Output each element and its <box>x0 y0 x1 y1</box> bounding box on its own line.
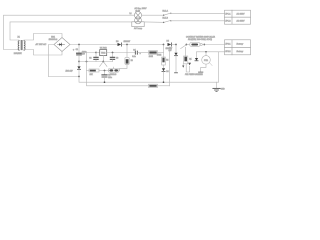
wire U1 gnd <box>102 56 104 62</box>
wire Q1 emitter loop <box>186 64 189 72</box>
LED1 <box>125 57 129 64</box>
wire buzzer rail <box>197 51 225 53</box>
svg-text:C2: C2 <box>89 58 91 60</box>
wire mains outer loop L <box>4 15 135 49</box>
wire C1 tap bus <box>79 61 113 63</box>
connector JP1-1 <box>225 10 251 17</box>
lamp AC fan circle <box>134 12 141 19</box>
svg-text:L1: L1 <box>130 13 132 15</box>
svg-text:RL1-A: RL1-A <box>163 10 169 13</box>
node D5 out <box>175 44 177 46</box>
diodes D8 D9 row <box>108 67 119 72</box>
wire to U1 <box>96 52 100 54</box>
connector JP2-1 <box>225 40 251 48</box>
diode D5 <box>168 43 177 46</box>
svg-text:C4: C4 <box>133 49 135 51</box>
zener D4 branch <box>174 45 177 73</box>
wire Q1 <box>185 47 187 56</box>
resistor R6 <box>149 51 164 55</box>
node Q1 collector <box>186 44 188 46</box>
wire bridge plus output <box>70 44 118 46</box>
resistor R4 vertical <box>162 57 166 65</box>
svg-text:1N4007x4: 1N4007x4 <box>49 39 58 41</box>
svg-text:R4: R4 <box>166 59 168 61</box>
transistor Q1 <box>184 56 188 64</box>
svg-text:AC 230V: AC 230V <box>237 20 246 23</box>
svg-text:AC lamp: AC lamp <box>134 27 143 30</box>
wire contact B to connector <box>170 20 171 21</box>
buzzer PZ1 <box>202 52 211 64</box>
diode D3 <box>118 43 164 46</box>
svg-text:40 W: 40 W <box>135 10 140 12</box>
ground U1 <box>100 61 107 67</box>
svg-text:Battery: Battery <box>237 43 245 46</box>
regulator U1 7812 <box>100 50 107 56</box>
svg-text:10K: 10K <box>90 74 94 76</box>
wire tap down to rail2 <box>87 62 149 86</box>
svg-text:25V: 25V <box>82 54 86 56</box>
node relay out <box>203 44 205 46</box>
transformer core <box>21 40 22 49</box>
capacitor C1 <box>77 45 82 62</box>
wire link down to rail2 <box>169 50 171 86</box>
node C5 bottom <box>104 81 106 83</box>
wire relay to JP2-1 <box>202 44 224 46</box>
svg-text:470E: 470E <box>157 54 162 56</box>
svg-text:Q1: Q1 <box>189 58 191 60</box>
bridge rectifier BR1 <box>54 38 70 52</box>
wire secondary top to bridge <box>24 34 62 41</box>
relay coil RL1 <box>186 43 200 47</box>
svg-text:R3: R3 <box>131 60 133 62</box>
svg-text:ZD1 12V: ZD1 12V <box>65 70 74 72</box>
svg-text:JP1-1: JP1-1 <box>225 14 231 16</box>
relay contact RL1-B <box>163 20 171 23</box>
buzzer bottom lead <box>201 64 206 72</box>
transistor Q1 collector diagonal <box>181 45 187 49</box>
wire down x163 <box>163 45 165 58</box>
wire bridge minus to ground rail <box>49 45 55 77</box>
wire secondary bottom to bridge <box>24 50 62 56</box>
capacitor C4 <box>135 51 148 54</box>
Q1 emitter arrow <box>182 64 184 68</box>
relay terminal circle <box>200 43 202 45</box>
svg-text:C1: C1 <box>76 49 78 51</box>
node row <box>104 70 106 72</box>
capacitor C5 <box>102 71 107 83</box>
svg-text:100E: 100E <box>149 56 154 58</box>
svg-text:X1: X1 <box>18 37 20 39</box>
wire ground rail lower left <box>49 76 80 78</box>
node D3 out <box>126 44 128 46</box>
svg-text:PZ1: PZ1 <box>204 60 209 62</box>
capacitor C2 <box>94 53 98 62</box>
ground buzzer <box>199 71 203 73</box>
svg-text:JP2-1: JP2-1 <box>225 44 231 46</box>
wire fan to contact <box>142 14 164 16</box>
resistor R7 rail2 <box>149 84 158 87</box>
wire LED branch <box>126 45 128 58</box>
node U1 out <box>112 52 114 54</box>
node junction D5 <box>163 44 165 46</box>
wire tap up to U1 rail <box>87 53 97 62</box>
svg-text:D5: D5 <box>167 40 169 42</box>
svg-text:RL1-B: RL1-B <box>163 18 169 20</box>
wire contact A to connector <box>170 13 171 14</box>
svg-text:1N4007: 1N4007 <box>124 41 131 43</box>
svg-text:230V/15V: 230V/15V <box>14 53 23 55</box>
svg-text:100u: 100u <box>108 77 112 79</box>
svg-text:0.1u: 0.1u <box>132 56 136 58</box>
node bridge plus <box>78 44 80 46</box>
wire tap to lower row <box>87 70 90 72</box>
diode D6 <box>162 65 165 82</box>
svg-text:+: + <box>140 53 142 55</box>
node C1 bottom <box>78 61 80 63</box>
svg-text:JP2-2: JP2-2 <box>225 51 231 53</box>
wire right drop <box>218 52 220 82</box>
wire zener to bottom rail <box>79 77 219 83</box>
node tap <box>86 61 88 63</box>
svg-text:Battery: Battery <box>237 50 245 53</box>
connector JP2-2 <box>225 47 251 55</box>
node zener bottom <box>78 76 80 78</box>
buzzer arrow <box>209 63 212 66</box>
svg-text:CONTACT RATING 230V AC,5A: CONTACT RATING 230V AC,5A <box>186 35 216 38</box>
svg-text:7812: 7812 <box>101 53 106 55</box>
svg-text:U1 7812: U1 7812 <box>100 48 107 50</box>
zener D7 <box>195 52 198 61</box>
svg-text:D6: D6 <box>166 71 168 73</box>
node U1 in <box>95 52 97 54</box>
transformer X1 secondary coil <box>24 41 25 50</box>
svg-text:C3: C3 <box>116 58 118 60</box>
wire rail2 <box>158 85 170 87</box>
wire mains inner loop N <box>10 22 132 40</box>
wire lamp to contact <box>144 21 163 23</box>
zener ZD1 <box>77 62 80 77</box>
node buzzer top <box>205 51 207 53</box>
svg-text:AC 230V: AC 230V <box>237 13 246 16</box>
capacitor C3 <box>110 53 114 62</box>
relay contact RL1-A <box>163 13 171 16</box>
wire U1 out <box>107 52 135 54</box>
svg-text:AT 15V AC: AT 15V AC <box>35 43 47 46</box>
svg-text:1N4148: 1N4148 <box>110 74 116 76</box>
diode small Q1 right <box>188 63 191 65</box>
wire LED to row <box>120 65 128 71</box>
svg-text:JP1-2: JP1-2 <box>225 21 231 23</box>
transformer X1 primary coil <box>18 41 19 50</box>
lamp AC load circle with holder <box>132 17 144 27</box>
ground chassis right <box>213 82 220 91</box>
svg-text:+: + <box>73 49 75 51</box>
svg-text:RL1(12V, 200 OHM, 1C/O): RL1(12V, 200 OHM, 1C/O) <box>188 39 212 41</box>
resistor R1 <box>89 69 110 72</box>
svg-text:PZ1 PIEZO BUZZER: PZ1 PIEZO BUZZER <box>185 74 203 76</box>
connector JP1-2 <box>225 17 251 24</box>
svg-text:D3: D3 <box>116 41 118 43</box>
node rail1 x163 <box>163 81 165 83</box>
svg-text:GND: GND <box>221 88 226 90</box>
